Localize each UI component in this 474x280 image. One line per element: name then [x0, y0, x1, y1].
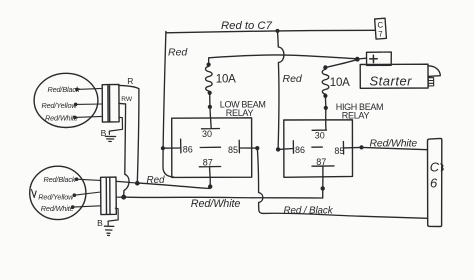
svg-text:10A: 10A — [330, 77, 350, 89]
wire: circle1 pin2 to connector — [76, 103, 103, 105]
label: R — [127, 76, 133, 86]
label: Red (high feed) — [283, 73, 303, 85]
label: Red/White (right) — [370, 139, 418, 150]
mark: small brace right of C6 — [441, 164, 443, 171]
node: circle1 pin1 — [75, 88, 79, 92]
fuse F1 10A (low beam) — [205, 66, 212, 91]
wire: K2 pin87 down to Red/White run — [322, 176, 324, 198]
wire: plug1 B lead to ground — [109, 117, 122, 134]
wire: Red/White from K2 pin85 to C6 — [362, 147, 428, 149]
node: circle1 pin3 — [73, 116, 77, 120]
label: Red to C7 — [221, 20, 273, 32]
wire: diagonal from starter node to F2 top — [325, 59, 357, 67]
svg-text:85: 85 — [334, 146, 344, 156]
label: Red (diagonal) — [147, 175, 166, 186]
svg-text:87: 87 — [316, 157, 326, 167]
node: junction K1 pin87 / Red wire — [208, 184, 212, 188]
wire: R from plug1 down to Red diagonal — [119, 85, 139, 183]
label: Red/Yellow (circle1) — [42, 101, 78, 110]
label: Red/Black — [284, 206, 334, 217]
wire: plug2 top lead to R junction — [116, 181, 137, 183]
pin 87 of K2 — [312, 166, 334, 177]
pin 85 of K1 — [238, 140, 240, 153]
node: starter feed junction — [355, 57, 360, 62]
label: Starter — [370, 73, 413, 88]
wire: K1 pin86 to Red bus — [163, 147, 181, 149]
svg-text:Red / Black: Red / Black — [284, 206, 334, 217]
label: 10A (low) — [216, 73, 236, 85]
headlamp connector circle 2 — [30, 166, 86, 219]
node: K1 pin85 terminal — [255, 146, 259, 150]
node: circle2 pin1 — [75, 177, 79, 181]
svg-text:30: 30 — [315, 131, 325, 141]
svg-text:Red/Yellow: Red/Yellow — [42, 101, 78, 110]
wire: F1 to relay K1 pin30 — [209, 93, 212, 119]
svg-text:RW: RW — [121, 96, 133, 103]
wire: K1 pin87 down — [209, 177, 211, 186]
wire: F2 to K2 pin30 — [324, 96, 326, 120]
node: fuse F2 top terminal — [323, 65, 327, 69]
label: Red/White (circle1) — [45, 114, 78, 123]
label: Red/Yellow (circle2) — [38, 192, 74, 201]
svg-text:Starter: Starter — [370, 73, 413, 88]
label: Red (top-left) — [168, 47, 188, 59]
wire: Red diagonal from headlamp R to K1 pin87 — [137, 183, 210, 188]
pin 30 of K1 — [202, 119, 220, 129]
node: junction on top line for high-beam feed — [276, 29, 280, 33]
headlamp plug block 1 — [102, 84, 119, 122]
svg-text:B: B — [97, 218, 103, 228]
starter cable lug (flap) — [428, 66, 440, 76]
svg-text:Red/White: Red/White — [370, 139, 418, 150]
svg-text:86: 86 — [295, 145, 305, 155]
pin 87 of K1 — [199, 167, 220, 178]
node: fuse F1 bottom terminal — [208, 91, 212, 95]
svg-text:RELAY: RELAY — [342, 111, 370, 121]
svg-text:Red: Red — [283, 73, 303, 85]
svg-text:R: R — [127, 76, 133, 86]
ground symbol 2 — [104, 226, 113, 235]
wire: circle2 pin2 to connector — [74, 192, 100, 195]
pin 85 of K2 — [342, 142, 344, 154]
svg-text:Red/Black: Red/Black — [44, 175, 76, 184]
label: RW — [121, 96, 133, 103]
label: LOW BEAM RELAY — [220, 99, 266, 118]
svg-text:Red/Black: Red/Black — [48, 85, 80, 94]
svg-text:30: 30 — [202, 129, 212, 139]
label: Red/White (circle2) — [41, 204, 74, 213]
node: K1 pin30 node — [208, 105, 212, 109]
svg-text:C: C — [377, 20, 384, 29]
mark: stray tick on circle2 edge — [32, 190, 37, 198]
wire: Red vertical (high-beam feed) with hop — [278, 31, 284, 149]
wire: circle2 pin1 to connector — [77, 179, 101, 180]
svg-text:Red to C7: Red to C7 — [221, 20, 273, 32]
svg-text:Red: Red — [147, 175, 166, 186]
wire: K1 pin85 down, hop over Red/White, to Red/Black run to C6 — [257, 148, 427, 218]
svg-text:Red: Red — [168, 47, 188, 59]
wire: circle1 pin1 to connector — [77, 88, 102, 89]
relay K1 (low beam) box — [172, 118, 252, 178]
svg-text:6: 6 — [430, 176, 438, 191]
wire: plug2 mid lead to Red/White junction — [116, 196, 124, 198]
headlamp plug block 2 — [101, 177, 117, 215]
label: HIGH BEAM RELAY — [336, 102, 383, 120]
svg-text:85: 85 — [228, 145, 238, 155]
svg-text:7: 7 — [378, 29, 384, 38]
label: 10A (high) — [330, 77, 350, 89]
node: junction Red vertical / K2 pin86 — [276, 147, 280, 151]
wire: fuse-top horizontal bus with hop over Red vertical — [209, 55, 355, 64]
connector C7 — [375, 18, 387, 39]
label: Red/Black (circle2) — [44, 175, 76, 184]
node: K2 pin85 terminal — [359, 145, 363, 149]
wire: K2 pin86 stub to Red vertical — [278, 148, 293, 151]
wire: left Red bus (down left side, curving into Red wire) — [163, 31, 174, 177]
wire: K1 pin85 stub — [239, 147, 257, 149]
pin 86 of K2 — [292, 141, 294, 153]
node: fuse F1 top terminal — [207, 63, 211, 67]
node: circle2 pin2 — [73, 193, 77, 197]
headlamp connector circle 1 — [34, 73, 98, 127]
svg-text:87: 87 — [203, 158, 213, 168]
coil dash of K1 — [200, 146, 220, 148]
label: B (lower) — [97, 218, 103, 228]
node: junction R wire / Red diagonal — [135, 181, 140, 186]
wire: Red/White horizontal run — [124, 196, 323, 199]
pin 30 of K2 — [312, 120, 326, 130]
label: + symbol — [370, 55, 378, 62]
svg-text:10A: 10A — [216, 73, 236, 85]
svg-text:Red/White: Red/White — [41, 204, 74, 213]
relay K2 (high beam) box — [284, 120, 353, 178]
pin 86 of K1 — [180, 139, 182, 153]
wire: circle2 pin3 to connector — [73, 206, 101, 207]
node: junction Red bus / K1 pin86 — [161, 146, 165, 150]
label: Red/Black (circle1) — [48, 85, 80, 94]
svg-text:Red/Yellow: Red/Yellow — [38, 192, 74, 201]
node: dot on K2 pin87 wire — [321, 186, 325, 190]
ground symbol 1 — [105, 136, 115, 141]
wire: plug2 B lead to ground — [108, 208, 118, 225]
svg-text:Red/White: Red/White — [45, 114, 78, 123]
wire: RW from plug1 down with hop, to Red/White run — [119, 103, 129, 196]
node: circle1 pin2 — [74, 103, 78, 107]
fuse F2 10A (high beam) — [322, 69, 329, 94]
connector C6 — [428, 138, 442, 226]
node: junction RW / Red-White run — [121, 195, 126, 200]
starter box — [360, 64, 428, 88]
starter cable lug pins — [428, 78, 434, 86]
node: K2 pin30 node — [324, 106, 328, 110]
node: fuse F2 bottom terminal — [323, 94, 327, 98]
svg-text:86: 86 — [183, 144, 193, 154]
wire: circle1 pin3 to connector — [75, 116, 102, 117]
battery + terminal box on starter — [367, 52, 392, 66]
svg-text:RELAY: RELAY — [226, 108, 254, 118]
wire: node to + terminal box — [358, 57, 367, 60]
label: B (upper) — [101, 128, 107, 138]
wire: K2 pin85 stub — [344, 146, 362, 149]
node: circle2 pin3 — [71, 205, 75, 209]
coil dash of K2 — [312, 146, 322, 148]
svg-text:C: C — [430, 160, 440, 175]
svg-text:Red/White: Red/White — [191, 198, 241, 210]
label: Red/White (bottom) — [191, 198, 241, 210]
wire: top Red to C7 feed line — [166, 30, 375, 33]
